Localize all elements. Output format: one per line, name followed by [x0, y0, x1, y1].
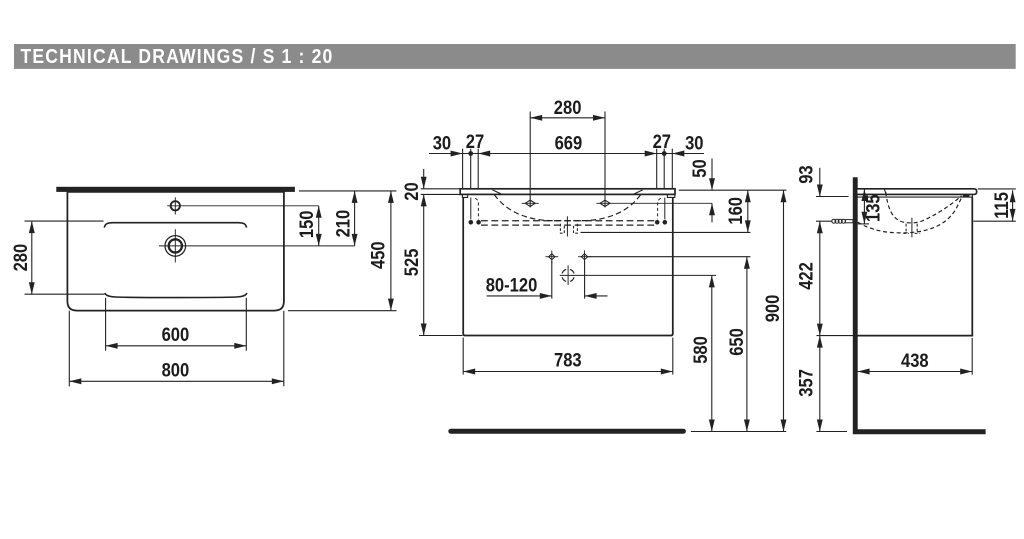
front view: drain centerline vertical [566, 216, 568, 236]
front view: bowl edge crossing countertop right [634, 190, 643, 194]
dimension 20 (front view) [423, 169, 425, 189]
svg-text:783: 783 [554, 349, 582, 371]
left view: bottom extension line [288, 310, 397, 312]
front view: bowl edge crossing countertop left [493, 190, 502, 194]
side view: drain centerline [911, 218, 913, 238]
side view: wall and floor (filled L) [853, 177, 986, 434]
svg-text:30: 30 [433, 132, 451, 154]
svg-text:600: 600 [162, 324, 190, 346]
left view: drain vertical centerline [174, 229, 176, 262]
dimension 150 (left view) [318, 206, 320, 246]
front view: right fixing hole symbol [581, 254, 587, 260]
header bar [14, 44, 1016, 69]
svg-text:580: 580 [690, 336, 712, 364]
side view: bowl edge crossing countertop [884, 189, 886, 194]
left view: basin front edge curve [105, 293, 247, 298]
svg-text:50: 50 [689, 159, 711, 177]
svg-text:80-120: 80-120 [486, 274, 538, 296]
svg-text:450: 450 [367, 241, 389, 269]
front view: drain hidden bracket right [574, 224, 578, 233]
svg-text:800: 800 [162, 359, 190, 381]
front view: leader for dimension 650 [588, 256, 750, 258]
svg-text:27: 27 [466, 131, 484, 153]
left view: wall strip (filled bar) [56, 187, 295, 192]
side view: drain hidden lines [903, 224, 909, 234]
front view: right mounting dashed line [658, 198, 661, 219]
svg-text:27: 27 [653, 131, 671, 153]
front view: top right extension line [679, 189, 787, 191]
dimension 160 (front view) [747, 190, 749, 232]
dimension 30 right (front view) [672, 151, 684, 157]
front view: basin hidden outline upper [481, 220, 656, 222]
front view: left fixing hole symbol [549, 254, 555, 260]
svg-text:900: 900 [762, 295, 784, 323]
dimension 650 (front view) [746, 257, 748, 432]
front view: left mounting bolt line [470, 198, 472, 220]
front view: siphon centerline cross [567, 265, 569, 285]
front view: siphon centerline and leader for dimension 580 [560, 274, 716, 276]
dimension 525 (front view) [423, 194, 425, 335]
dimension 115 (side view) [1012, 190, 1014, 221]
dimension 210 (left view) [354, 191, 356, 246]
left view: drain outer circle [165, 236, 186, 257]
side view: countertop [858, 189, 977, 195]
front view: right mounting bolt line [664, 198, 666, 220]
dimension 27 right (front view) [645, 151, 657, 157]
left view: faucet hole centerline and leader [167, 205, 319, 207]
dimension 900 (front view) [783, 190, 785, 431]
side view: basin front edge cross-section [963, 194, 970, 197]
front view: left faucet hole symbol [525, 200, 535, 206]
dimension 438 (side view) [858, 371, 973, 373]
side view: water connection screw symbol [832, 219, 836, 223]
dimension 800 (left view) [69, 380, 283, 382]
dimension 600 (left view) [106, 345, 247, 347]
dimension 30 left (front view) [451, 151, 463, 157]
dimension 135 (side view) [863, 189, 865, 224]
front view: floor line [448, 429, 686, 434]
left view: top extension line [299, 190, 397, 192]
svg-text:150: 150 [296, 210, 318, 238]
front view: extension lines top cluster right [656, 149, 658, 189]
svg-text:210: 210 [332, 210, 354, 238]
dimension 422 (side view) [819, 221, 821, 431]
front view: siphon hidden circle [562, 269, 574, 281]
dimension 280 (front view) [530, 117, 605, 119]
front view: right mounting dots [655, 220, 660, 225]
svg-text:280: 280 [554, 97, 582, 119]
front view: floor extension line [691, 431, 786, 433]
svg-text:357: 357 [795, 369, 817, 397]
front view: basin hidden outline lower [481, 224, 656, 226]
svg-text:525: 525 [401, 249, 423, 277]
front view: leader for dimension 160 [581, 231, 751, 233]
left view: faucet hole [171, 201, 180, 210]
dimension 80-120 (front view) [487, 295, 552, 297]
svg-text:TECHNICAL DRAWINGS / S 1 : 20: TECHNICAL DRAWINGS / S 1 : 20 [21, 45, 334, 68]
front view: right faucet centerline leader [596, 202, 712, 204]
left view: drain centerline and leader [159, 245, 355, 247]
dimension 783 (front view) [463, 371, 673, 373]
left view: drain inner circle [169, 239, 182, 252]
dimension 450 (left view) [390, 191, 392, 311]
dimension 580 (front view) [711, 275, 713, 431]
front view: cabinet outline [463, 197, 673, 335]
svg-text:93: 93 [795, 165, 817, 183]
front view: right faucet hole symbol [600, 200, 610, 206]
side view: outer shell hidden curve [858, 198, 962, 233]
svg-text:20: 20 [401, 182, 423, 200]
svg-text:438: 438 [901, 350, 929, 372]
dimension 280 (left view) [31, 221, 33, 294]
side view: floor extension line [816, 431, 847, 433]
front view: drain hidden bracket left [560, 224, 564, 233]
svg-text:135: 135 [862, 194, 884, 222]
svg-text:669: 669 [555, 132, 583, 154]
side view: water connection line [816, 220, 833, 222]
front view: left mounting dashed line [475, 198, 478, 219]
front view: extension lines top cluster left [462, 149, 464, 189]
svg-text:280: 280 [10, 244, 32, 272]
side view: ceramic lip under countertop [858, 194, 973, 197]
front view: countertop [460, 189, 675, 195]
left view: basin back edge curve [104, 223, 246, 228]
front view: right ceramic lip [667, 194, 674, 197]
side view: cabinet front edge and bottom [858, 197, 973, 336]
svg-text:160: 160 [725, 197, 747, 225]
svg-text:650: 650 [726, 328, 748, 356]
front view: main top dimension line [429, 153, 704, 155]
front view: left ceramic lip [462, 194, 467, 197]
svg-text:115: 115 [991, 192, 1013, 219]
dimension 50 (front view) [711, 159, 713, 191]
dimension 27 left (front view) [468, 151, 473, 156]
front view: left mounting dots [469, 220, 474, 225]
svg-text:422: 422 [795, 262, 817, 290]
svg-text:30: 30 [685, 132, 703, 154]
side view: cabinet bottom extension line [817, 335, 858, 337]
dimension 93 (side view) [819, 168, 821, 197]
left view: washbasin outline [67, 192, 284, 311]
side view: inner bowl hidden curve [886, 192, 962, 223]
front view: basin bowl hidden curve [494, 195, 640, 221]
